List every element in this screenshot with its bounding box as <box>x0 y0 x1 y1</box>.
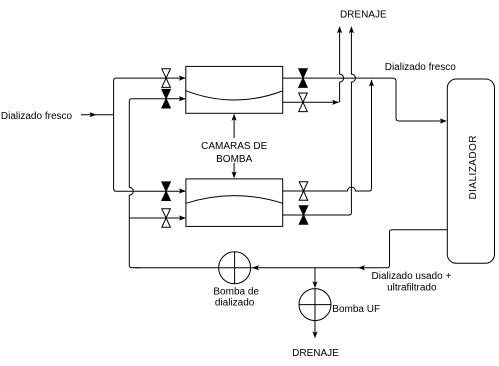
svg-text:DRENAJE: DRENAJE <box>292 348 339 359</box>
wire: fresh line from top chamber outlet 1 to dializador <box>283 78 446 121</box>
diaphragm curve chamber 2 <box>186 196 283 204</box>
svg-text:BOMBA: BOMBA <box>216 154 252 165</box>
wire: Bomba UF to drenaje <box>314 321 316 334</box>
wire: UF branch down to Bomba UF <box>314 268 316 284</box>
svg-text:Dializado fresco: Dializado fresco <box>1 111 73 122</box>
arrowhead into pump <box>252 265 259 270</box>
wire: supply riser 1 (vertical) <box>114 78 185 191</box>
pump chamber 1 (top balancing chamber) <box>186 66 283 113</box>
valve open V7 (bottom chamber outlet fresh) <box>299 182 308 201</box>
wire: supply riser 2 (vertical, hop at y191) <box>129 99 185 268</box>
wire: camaras label arrow up into top chamber <box>233 115 235 138</box>
wire: camaras label arrow down into bottom chamber <box>233 163 235 177</box>
wire: top chamber inlet line 2 (arrow) <box>179 96 186 101</box>
wire: dializado fresco inlet feed <box>81 114 114 116</box>
valve open V4 (top chamber outlet drain) <box>299 93 308 112</box>
svg-text:Bomba de: Bomba de <box>213 287 259 298</box>
valve closed V3 (top chamber outlet fresh) <box>299 69 308 88</box>
valve open V1 (top chamber inlet 1) <box>162 69 171 88</box>
diaphragm curve chamber 1 <box>186 91 283 100</box>
svg-text:ultrafiltrado: ultrafiltrado <box>387 282 437 293</box>
svg-text:CAMARAS DE: CAMARAS DE <box>201 141 267 152</box>
wire: drain riser B (vertical, hop at y78) <box>283 27 356 215</box>
wire: bottom chamber inlet line 1 (arrow) <box>179 188 186 193</box>
valve closed V2 (top chamber inlet 2) <box>162 89 171 108</box>
wire: drain riser A (vertical, hop at y78) <box>340 27 344 102</box>
arrowhead: dializado usado mid-line <box>358 265 365 270</box>
svg-text:Bomba UF: Bomba UF <box>332 304 380 315</box>
pump: Bomba de dializado (circle with cross) <box>219 252 251 284</box>
svg-text:Dializado fresco: Dializado fresco <box>385 62 457 73</box>
valve open V6 (bottom chamber inlet 2) <box>162 209 171 228</box>
wire: top chamber outlet 2 to drain riser A <box>283 101 339 103</box>
svg-text:DRENAJE: DRENAJE <box>340 9 387 20</box>
svg-text:dializado: dializado <box>215 298 255 309</box>
svg-text:DIALIZADOR: DIALIZADOR <box>468 135 479 200</box>
valve closed V5 (bottom chamber inlet 1) <box>162 182 171 201</box>
pump chamber 2 (bottom balancing chamber) <box>186 179 283 227</box>
wire: bottom chamber outlet 1 riser to fresh line (hop over B) <box>283 80 372 191</box>
wire: top chamber inlet line 1 (arrow) <box>179 76 186 81</box>
wire: bottom chamber inlet line 2 <box>129 217 185 219</box>
wire: used dialysate return line to pump <box>135 230 447 268</box>
pump: Bomba UF (circle with cross) <box>299 289 331 321</box>
valve closed V8 (bottom chamber outlet drain) <box>299 206 308 225</box>
dializador (rounded box) <box>447 79 494 263</box>
svg-text:Dializado usado +: Dializado usado + <box>372 271 452 282</box>
